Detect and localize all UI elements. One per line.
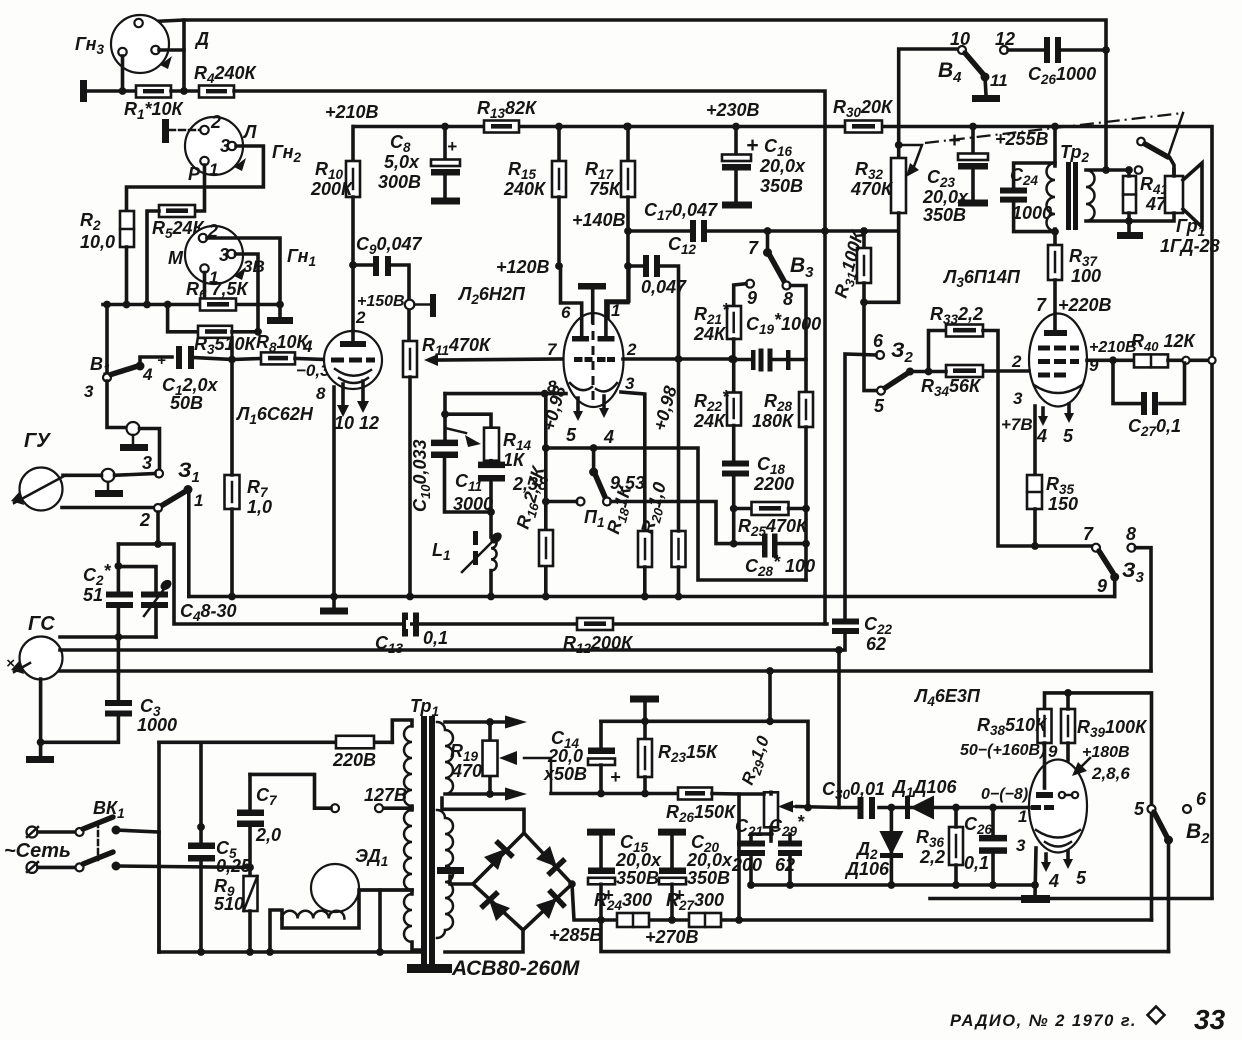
svg-text:8: 8 [316,384,326,403]
svg-text:C261000: C261000 [1028,64,1096,87]
svg-text:3000: 3000 [453,494,493,514]
svg-text:150: 150 [1048,494,1078,514]
svg-text:2: 2 [626,340,637,359]
svg-text:+210В: +210В [1089,339,1137,356]
svg-text:75К: 75К [589,179,622,199]
svg-text:24К: 24К [693,411,727,431]
svg-text:C19*1000: C19*1000 [746,310,821,337]
svg-text:24К: 24К [693,324,727,344]
svg-text:C48-30: C48-30 [180,601,237,624]
svg-text:7: 7 [1036,295,1047,315]
svg-text:ГС: ГС [28,613,55,635]
svg-text:4: 4 [1036,426,1047,446]
svg-text:1: 1 [1018,807,1027,826]
svg-text:1К: 1К [503,450,526,470]
svg-text:4: 4 [142,365,153,384]
svg-text:6: 6 [561,303,571,322]
svg-text:2: 2 [210,112,221,132]
svg-text:4: 4 [1048,871,1059,891]
svg-text:+120В: +120В [496,257,550,277]
svg-text:5: 5 [566,425,577,445]
svg-text:3: 3 [220,136,230,156]
svg-text:510: 510 [214,894,244,914]
svg-text:1: 1 [209,160,218,179]
svg-text:+180В: +180В [1082,744,1130,761]
svg-text:+285В: +285В [549,925,603,945]
svg-text:350В: 350В [760,176,803,196]
svg-text:8: 8 [783,289,793,309]
svg-text:5: 5 [874,396,885,416]
svg-text:+: + [157,352,166,369]
svg-text:Д: Д [194,29,209,49]
svg-text:9: 9 [1048,742,1058,761]
svg-text:1: 1 [611,301,620,320]
svg-text:R12200К: R12200К [563,633,634,656]
svg-text:+220В: +220В [1058,295,1112,315]
svg-text:2200: 2200 [753,474,794,494]
svg-text:470: 470 [451,761,482,781]
svg-text:R3456К: R3456К [921,376,982,399]
svg-text:+230В: +230В [706,100,760,120]
svg-text:R1*10К: R1*10К [124,99,185,122]
svg-text:ГУ: ГУ [24,430,51,452]
svg-text:R4240К: R4240К [194,63,258,86]
svg-text:470К: 470К [850,179,894,199]
svg-text:62: 62 [866,634,886,654]
svg-text:Л36П14П: Л36П14П [942,267,1021,290]
svg-text:3: 3 [219,245,229,265]
svg-text:+: + [610,767,621,787]
svg-text:R39100К: R39100К [1077,717,1148,740]
svg-text:C28* 100: C28* 100 [745,552,815,579]
svg-text:R1382К: R1382К [477,98,538,121]
svg-text:127В: 127В [364,785,407,805]
svg-text:5: 5 [1076,868,1087,888]
svg-text:11: 11 [990,71,1008,90]
svg-text:Л46Е3П: Л46Е3П [913,686,981,709]
svg-text:0−(−8): 0−(−8) [981,786,1028,803]
svg-text:C170,047: C170,047 [644,200,718,223]
svg-text:2: 2 [139,510,150,530]
svg-text:9: 9 [747,288,757,308]
svg-text:R11470К: R11470К [422,335,492,358]
svg-text:АСВ80-260М: АСВ80-260М [451,957,580,980]
svg-text:R24300: R24300 [594,890,652,913]
svg-text:350В: 350В [616,868,659,888]
svg-text:350В: 350В [923,205,966,225]
svg-text:51: 51 [83,585,103,605]
svg-text:10,0: 10,0 [80,232,115,252]
svg-text:2,0: 2,0 [255,825,281,845]
svg-text:20,0х: 20,0х [759,156,806,176]
svg-text:М: М [168,248,184,268]
svg-text:2,2: 2,2 [919,847,945,867]
svg-text:9: 9 [1097,576,1107,596]
svg-text:R2315К: R2315К [658,742,719,765]
svg-text:220В: 220В [332,750,376,770]
svg-text:50В: 50В [170,393,203,413]
svg-text:62: 62 [775,855,795,875]
svg-text:33: 33 [1194,1004,1226,1035]
svg-text:+: + [447,137,457,156]
svg-text:5,0х: 5,0х [384,152,420,172]
svg-text:3: 3 [84,382,94,401]
svg-text:2: 2 [355,308,366,327]
svg-text:350В: 350В [687,868,730,888]
svg-text:4: 4 [302,337,313,356]
svg-text:R40 12К: R40 12К [1131,331,1196,354]
svg-text:R3020К: R3020К [833,97,894,120]
svg-text:6: 6 [873,331,884,351]
svg-text:R3510К: R3510К [194,334,258,357]
svg-text:200: 200 [731,855,762,875]
svg-text:+140В: +140В [572,210,626,230]
svg-text:6: 6 [1196,789,1207,809]
svg-text:+270В: +270В [645,927,699,947]
svg-text:R810К: R810К [256,332,310,355]
svg-text:3В: 3В [243,257,265,276]
svg-text:3: 3 [1013,389,1023,408]
svg-text:20,0х: 20,0х [686,850,733,870]
svg-text:50−(+160В): 50−(+160В) [960,742,1045,759]
svg-text:+7В: +7В [1001,415,1033,434]
svg-text:200К: 200К [310,179,354,199]
svg-text:+255В: +255В [995,129,1049,149]
svg-text:3: 3 [625,374,635,393]
svg-text:300В: 300В [378,172,421,192]
svg-text:х50В: х50В [543,764,587,784]
svg-text:100: 100 [1071,266,1101,286]
svg-text:240К: 240К [503,179,547,199]
svg-text:C300,01: C300,01 [822,779,885,802]
svg-text:0,25: 0,25 [216,856,252,876]
svg-text:3: 3 [1016,836,1026,855]
svg-text:1,0: 1,0 [247,497,272,517]
svg-text:РАДИО, № 2 1970 г.: РАДИО, № 2 1970 г. [950,1012,1137,1030]
svg-text:5: 5 [1134,799,1145,819]
svg-text:+: + [948,129,960,152]
svg-text:20,0х: 20,0х [615,850,662,870]
svg-text:R27300: R27300 [666,890,724,913]
svg-text:10 12: 10 12 [334,413,379,433]
svg-text:7: 7 [547,340,558,359]
svg-text:3: 3 [142,453,152,473]
svg-text:C100,033: C100,033 [410,439,433,512]
svg-text:R26150К: R26150К [666,802,737,825]
svg-text:0,047: 0,047 [641,277,687,297]
svg-text:Л16С62Н: Л16С62Н [235,404,314,427]
svg-text:Д1Д106: Д1Д106 [891,777,958,800]
svg-text:P: P [188,164,201,184]
svg-text:7: 7 [1083,524,1094,544]
svg-text:R6 7,5К: R6 7,5К [186,279,250,302]
svg-text:1: 1 [194,491,203,510]
svg-text:2: 2 [1011,352,1022,371]
svg-text:7: 7 [748,238,759,258]
svg-text:20,0: 20,0 [547,746,583,766]
svg-text:180К: 180К [752,411,795,431]
svg-text:1ГД-28: 1ГД-28 [1160,236,1220,256]
svg-text:R38510К: R38510К [977,715,1048,738]
svg-text:Л: Л [242,122,257,142]
svg-text:2,8,6: 2,8,6 [1091,764,1130,783]
svg-text:Д106: Д106 [844,859,890,879]
svg-text:2,38: 2,38 [512,474,548,494]
svg-text:8: 8 [1126,524,1136,544]
svg-text:Л26Н2П: Л26Н2П [457,284,526,307]
svg-text:1000: 1000 [137,715,177,735]
svg-text:5: 5 [1063,426,1074,446]
svg-text:0,1: 0,1 [423,628,448,648]
svg-text:C90,047: C90,047 [356,234,423,257]
svg-text:+210В: +210В [325,102,379,122]
svg-text:20,0х: 20,0х [922,187,969,207]
svg-text:~Сеть: ~Сеть [4,840,71,862]
svg-text:0,1: 0,1 [964,853,989,873]
svg-text:×: × [6,655,15,672]
svg-text:4: 4 [603,427,614,447]
